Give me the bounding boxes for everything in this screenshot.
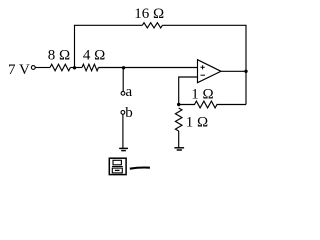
svg-text:16 Ω: 16 Ω [134, 6, 164, 22]
svg-text:1 Ω: 1 Ω [191, 87, 213, 103]
svg-text:b: b [125, 105, 133, 121]
svg-text:a: a [126, 84, 133, 100]
svg-text:1 Ω: 1 Ω [186, 114, 208, 130]
svg-text:4 Ω: 4 Ω [83, 47, 105, 63]
svg-text:7 V: 7 V [8, 62, 30, 78]
svg-text:8 Ω: 8 Ω [48, 47, 70, 63]
